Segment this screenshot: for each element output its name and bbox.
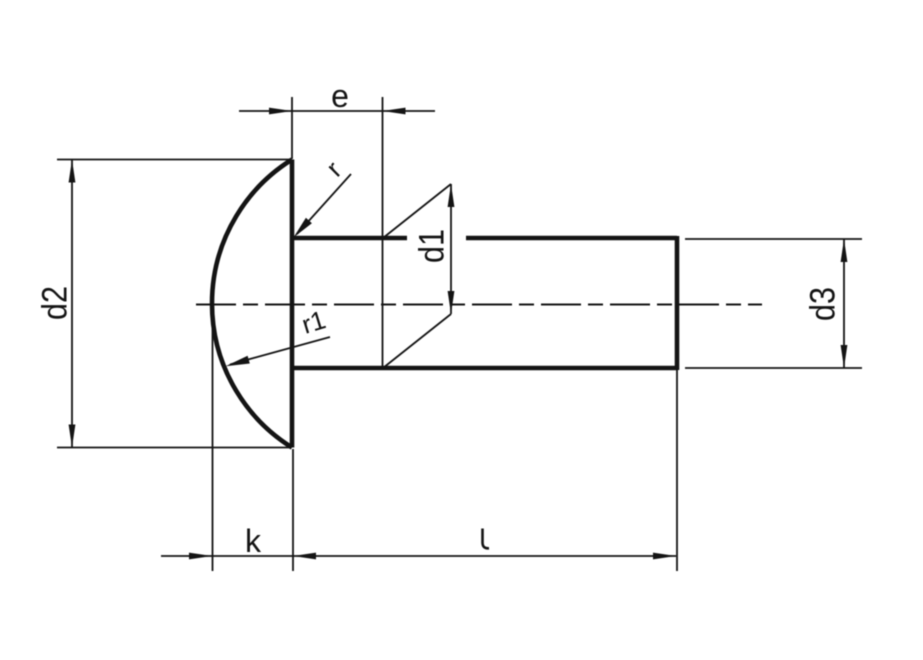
svg-text:d2: d2 xyxy=(35,286,74,320)
d1 dimension line xyxy=(450,184,452,314)
shank bottom line xyxy=(290,366,677,371)
svg-text:k: k xyxy=(245,523,262,559)
e dimension line xyxy=(239,110,435,112)
e right arrow xyxy=(383,108,406,115)
d2 bottom arrow xyxy=(69,425,76,448)
k right extension line xyxy=(292,449,294,571)
shank end face xyxy=(675,236,680,370)
l right arrow xyxy=(653,553,676,560)
e left extension line xyxy=(291,97,293,159)
d3 dimension line xyxy=(843,239,845,368)
d2 bottom extension line xyxy=(57,447,291,449)
l label xyxy=(483,529,490,549)
r leader arrow xyxy=(294,218,312,238)
d1 bottom arrow xyxy=(448,291,455,314)
d1 lower oblique extension line xyxy=(383,314,451,368)
l right extension line xyxy=(676,370,678,571)
r1 leader line xyxy=(230,337,330,365)
e right extension line xyxy=(382,97,384,368)
d2 dimension line xyxy=(71,160,73,448)
d2 top arrow xyxy=(69,160,76,183)
k left extension line xyxy=(212,306,214,571)
rivet head dome arc xyxy=(212,160,292,448)
d3 bottom extension line xyxy=(685,367,862,369)
l left arrow xyxy=(293,553,316,560)
svg-text:e: e xyxy=(331,78,349,114)
d2 top extension line xyxy=(57,159,291,161)
k/l dimension line xyxy=(161,555,676,557)
d1 upper oblique extension line xyxy=(383,184,451,238)
d1 top arrow xyxy=(448,184,455,207)
d3 bottom arrow xyxy=(841,345,848,368)
e left arrow xyxy=(269,108,292,115)
rivet head flat face xyxy=(290,160,295,448)
shank top line (right segment) xyxy=(466,236,677,241)
shank top line (left segment) xyxy=(290,236,407,241)
centerline (dash-dot axis) xyxy=(196,304,762,306)
r1 leader arrow xyxy=(226,356,250,367)
k left arrow xyxy=(189,553,212,560)
svg-text:d3: d3 xyxy=(803,287,842,321)
d3 top extension line xyxy=(685,238,862,240)
svg-text:d1: d1 xyxy=(412,229,451,263)
r leader line xyxy=(297,174,351,234)
d3 top arrow xyxy=(841,239,848,262)
